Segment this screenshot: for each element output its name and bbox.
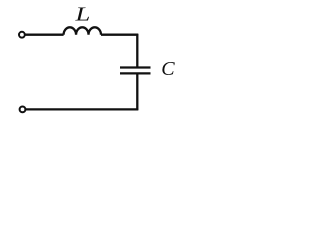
svg-text:C: C <box>161 58 175 80</box>
wire: capacitor bottom plate down to bottom-right corner <box>136 73 138 110</box>
bottom-left input terminal <box>20 107 26 113</box>
capacitor C top plate <box>120 66 151 68</box>
wire: top terminal to inductor <box>25 34 63 36</box>
top-left input terminal <box>19 32 25 38</box>
wire: inductor to top-right corner <box>101 34 138 36</box>
inductor L <box>64 27 101 34</box>
svg-text:L: L <box>74 3 90 25</box>
capacitor C bottom plate <box>120 72 151 74</box>
wire: bottom horizontal <box>26 108 138 110</box>
wire: right vertical, corner down to capacitor top plate <box>136 34 138 68</box>
